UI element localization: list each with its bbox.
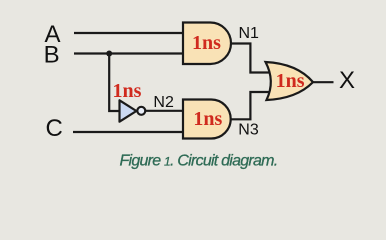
wire B to AND U1 input [74, 52, 184, 54]
svg-text:1ns: 1ns [192, 32, 221, 54]
svg-text:X: X [339, 67, 355, 94]
svg-text:N2: N2 [153, 94, 174, 111]
AND gate U1 [183, 23, 231, 65]
wire A to AND U1 input [74, 32, 184, 34]
svg-text:N3: N3 [238, 122, 259, 139]
svg-text:1ns: 1ns [193, 108, 222, 130]
svg-text:Figure 1. Circuit diagram.: Figure 1. Circuit diagram. [120, 153, 278, 170]
svg-text:1ns: 1ns [113, 80, 142, 102]
AND gate U3 [183, 100, 231, 139]
node B junction dot [106, 51, 112, 57]
svg-text:C: C [46, 115, 63, 142]
inverter U2 bubble [137, 107, 145, 115]
wire N1 from U1 output to OR U4 top input [231, 44, 272, 73]
wire C to AND U3 input [73, 131, 184, 133]
inverter U2 triangle [120, 100, 137, 121]
wire B branch down to NOT gate [109, 54, 120, 112]
svg-text:B: B [44, 41, 60, 68]
wire X from U4 output [314, 81, 334, 83]
svg-text:1ns: 1ns [276, 70, 305, 92]
wire N3 from U3 output to OR U4 bottom input [231, 92, 272, 119]
OR gate U4 [266, 62, 314, 100]
wire N2 to AND U3 input [145, 110, 184, 112]
svg-text:N1: N1 [239, 25, 260, 42]
